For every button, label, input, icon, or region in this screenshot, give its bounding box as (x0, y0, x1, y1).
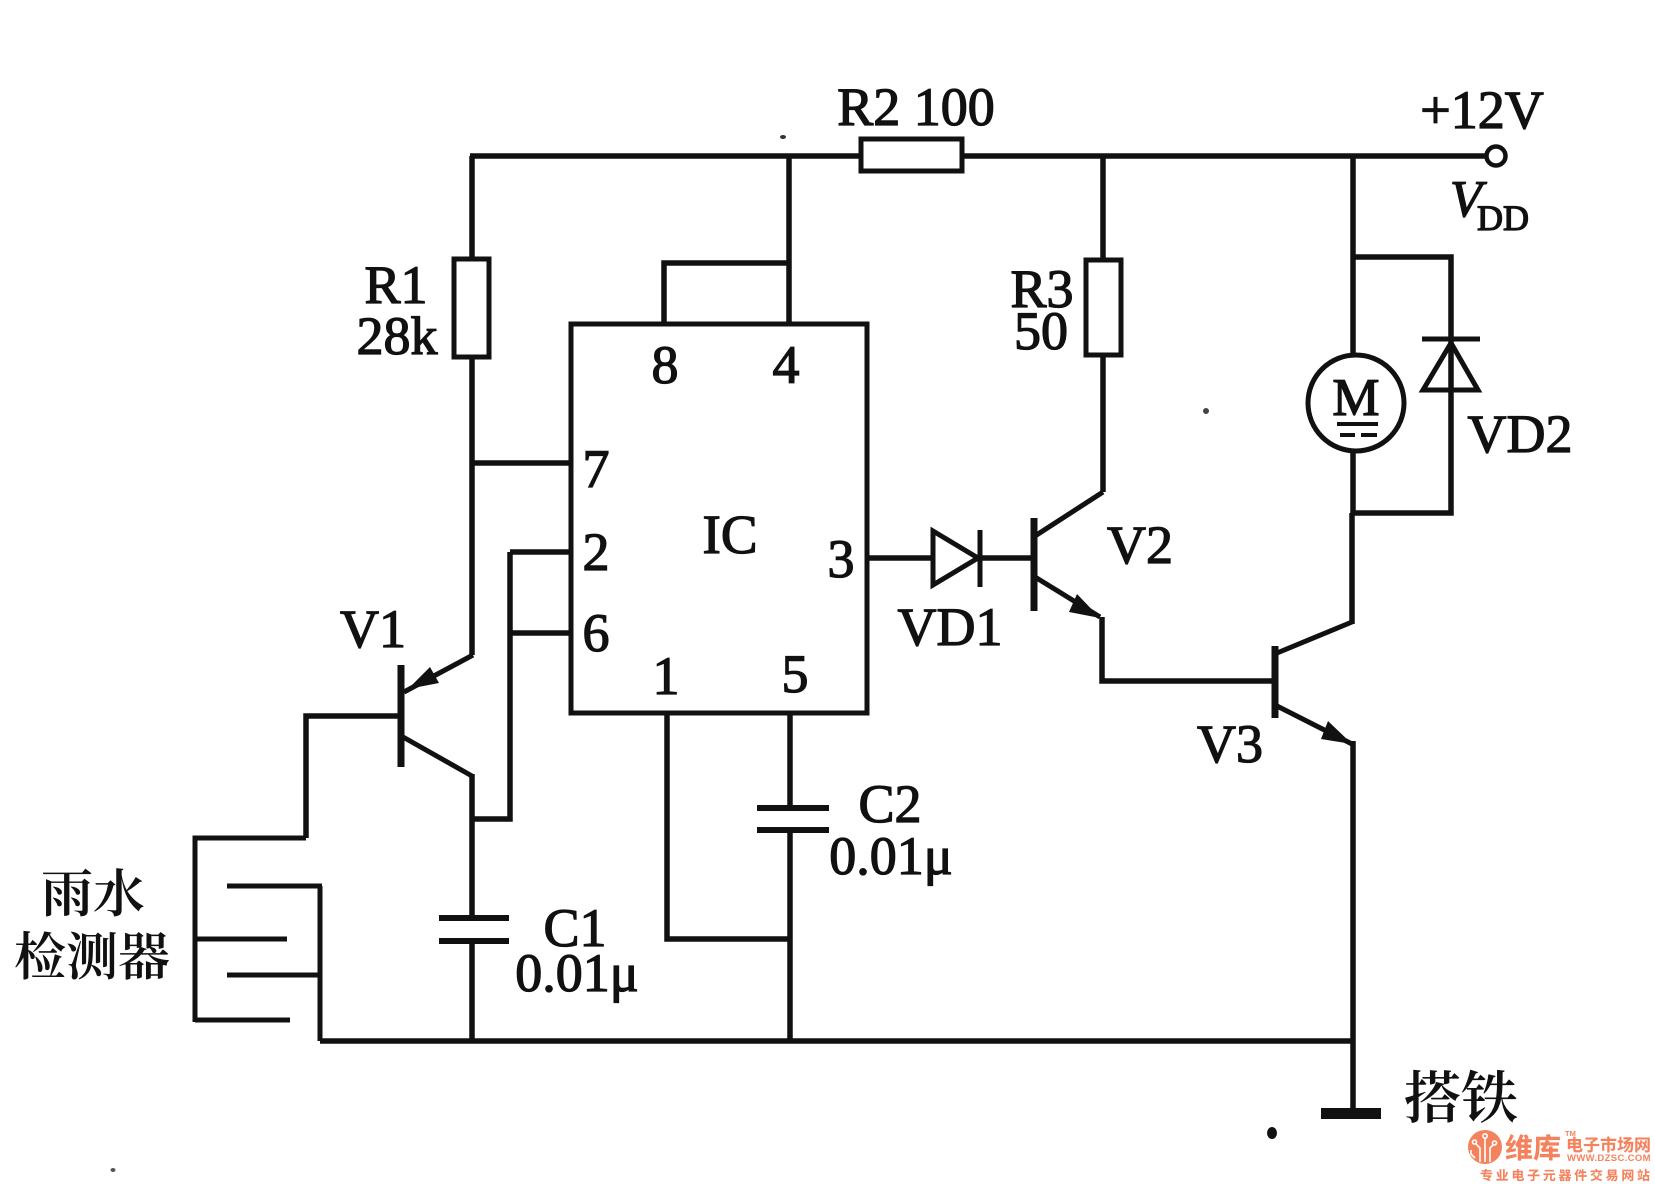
transistor V3 emitter arrow (1321, 721, 1352, 744)
svg-text:IC: IC (703, 504, 758, 565)
rain sensor electrode 3 (227, 973, 320, 978)
wire R1 bottom to V1 emitter node (469, 355, 475, 655)
resistor R2 (861, 139, 962, 171)
wire IC pin 1 L to pin5 node (667, 713, 790, 939)
wire VD2 parallel loop (1353, 257, 1451, 513)
wire motor top from rail (1350, 156, 1356, 357)
svg-text:V1: V1 (340, 599, 406, 659)
svg-text:VD2: VD2 (1468, 404, 1573, 464)
wire IC pin 6 (510, 630, 571, 636)
svg-text:2: 2 (583, 522, 610, 582)
svg-text:6: 6 (583, 603, 610, 663)
watermark logo circle (1468, 1130, 1502, 1164)
watermark 维库 (1505, 1134, 1532, 1161)
transistor V1 emitter arrow (408, 667, 439, 689)
terminal +12V circle (1487, 147, 1506, 166)
resistor R3 (1086, 260, 1121, 355)
svg-text:V3: V3 (1197, 714, 1263, 774)
wire R3 bottom to V2 collector (1100, 353, 1106, 492)
wire IC pin 2 (510, 549, 571, 555)
svg-text:50: 50 (1014, 301, 1068, 361)
label chassis ground 搭铁 (1405, 1070, 1460, 1123)
transistor V2 emitter arrow (1069, 594, 1100, 618)
ink speck left margin (111, 1168, 116, 1172)
capacitor C1 (439, 918, 509, 941)
diode VD1 (933, 530, 980, 587)
wire motor bottom (1350, 449, 1356, 515)
wire V3 emitter down to chassis ground (1350, 741, 1356, 1111)
wire IC pin 5 to C2 (787, 713, 793, 808)
svg-text:0.01μ: 0.01μ (515, 943, 638, 1003)
wire VD1 cathode to V2 base (980, 555, 1032, 561)
svg-text:7: 7 (583, 439, 610, 499)
svg-text:5: 5 (782, 644, 809, 704)
svg-text:28k: 28k (357, 306, 438, 366)
capacitor C2 (757, 808, 829, 830)
svg-text:8: 8 (652, 335, 679, 395)
watermark tagline (1481, 1169, 1493, 1181)
svg-text:V2: V2 (1107, 515, 1173, 575)
ink speck top (780, 135, 786, 139)
wire top +12V rail (470, 153, 1486, 159)
wire pin2/pin6 bus down to V1 collector node (472, 552, 510, 819)
svg-text:M: M (1332, 369, 1379, 427)
svg-text:R2 100: R2 100 (837, 77, 995, 137)
resistor R1 (454, 259, 489, 357)
svg-text:WWW.DZSC.COM: WWW.DZSC.COM (1567, 1153, 1651, 1164)
wire bottom ground rail (320, 1038, 1353, 1044)
svg-text:C2: C2 (858, 774, 921, 834)
svg-text:+12V: +12V (1420, 80, 1543, 140)
wire R1 top from rail (469, 156, 475, 261)
ink speck near ground (1267, 1127, 1277, 1139)
IC box U1 (571, 324, 867, 713)
rain sensor right bus (318, 886, 323, 1041)
motor M1 (1308, 355, 1404, 451)
wire IC pin 4 riser to rail (786, 156, 792, 324)
watermark 电子市场网 (1568, 1137, 1583, 1153)
rain sensor electrode 4 (195, 1018, 290, 1023)
transistor V3 (NPN) (1275, 622, 1352, 744)
svg-text:1: 1 (653, 646, 680, 706)
transistor V1 (PNP) (401, 655, 473, 776)
label rain sensor 检测器 (15, 931, 65, 980)
transistor V2 (NPN) (1034, 492, 1103, 617)
ink speck mid right (1203, 408, 1209, 414)
svg-text:3: 3 (828, 529, 855, 589)
wire IC pin 7 (470, 460, 571, 466)
wire V1 collector down to C1 (469, 774, 475, 917)
wire C1 bottom to ground rail (469, 943, 475, 1041)
wire V2 emitter to V3 base (1102, 617, 1275, 681)
wire R3 top to rail (1100, 156, 1106, 262)
chassis ground bar (1321, 1108, 1381, 1119)
label rain sensor 雨水 (43, 869, 91, 917)
svg-text:VD1: VD1 (898, 597, 1003, 657)
wire C2 bottom to ground rail (787, 831, 793, 1041)
rain sensor electrode 2 (195, 937, 287, 942)
wire V1 base to rain sensor (306, 716, 399, 838)
wire V3 collector riser (1349, 513, 1355, 624)
svg-text:4: 4 (773, 335, 800, 395)
wire IC pin 3 to VD1 anode (867, 555, 933, 561)
svg-text:0.01μ: 0.01μ (829, 826, 952, 886)
rain sensor electrode 1 (227, 884, 322, 889)
wire IC pin 8 riser and jog (664, 263, 789, 324)
rain sensor left bus (195, 838, 306, 1022)
diode VD2 (1422, 339, 1480, 390)
svg-text:DD: DD (1477, 198, 1529, 238)
